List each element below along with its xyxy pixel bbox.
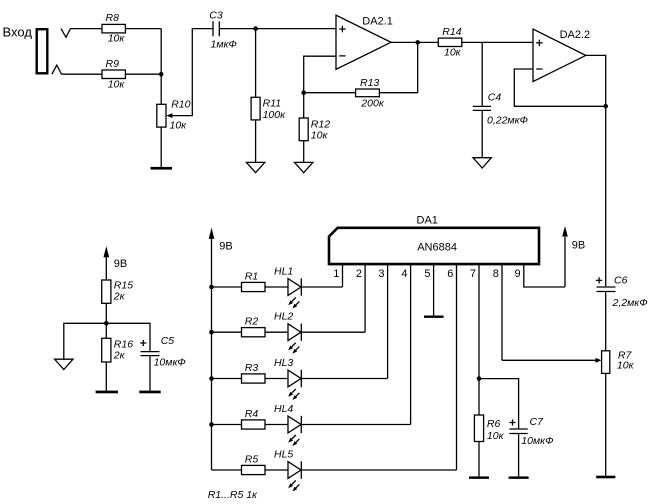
svg-text:9В: 9В (219, 241, 232, 253)
svg-text:3: 3 (378, 268, 384, 280)
svg-text:10мкФ: 10мкФ (521, 435, 553, 447)
svg-text:C4: C4 (488, 92, 502, 104)
svg-text:2к: 2к (113, 291, 126, 303)
svg-text:10к: 10к (108, 79, 126, 91)
svg-text:R9: R9 (106, 58, 120, 70)
svg-text:R11: R11 (263, 98, 281, 110)
svg-text:R15: R15 (114, 279, 133, 291)
svg-text:R14: R14 (442, 26, 461, 38)
svg-text:R1: R1 (245, 271, 258, 283)
svg-text:R13: R13 (360, 77, 379, 89)
svg-text:2,2мкФ: 2,2мкФ (612, 297, 648, 309)
svg-text:C7: C7 (530, 416, 545, 428)
svg-text:HL2: HL2 (274, 311, 293, 323)
svg-text:DA2.2: DA2.2 (560, 29, 591, 41)
svg-text:DA1: DA1 (417, 215, 438, 227)
svg-text:6: 6 (447, 268, 453, 280)
svg-text:100к: 100к (263, 109, 287, 121)
svg-text:1мкФ: 1мкФ (211, 38, 237, 50)
svg-text:10к: 10к (108, 33, 126, 45)
svg-text:C3: C3 (209, 10, 223, 22)
svg-text:200к: 200к (360, 97, 385, 109)
svg-text:9В: 9В (572, 239, 585, 251)
svg-text:Вход: Вход (3, 24, 33, 39)
svg-text:HL3: HL3 (274, 357, 293, 369)
svg-text:4: 4 (401, 268, 407, 280)
svg-text:8: 8 (493, 268, 499, 280)
svg-text:R5: R5 (245, 454, 259, 466)
svg-text:DA2.1: DA2.1 (362, 15, 393, 27)
svg-text:R8: R8 (106, 12, 120, 24)
svg-text:HL1: HL1 (274, 265, 293, 277)
svg-text:R12: R12 (311, 118, 330, 130)
svg-text:1: 1 (333, 268, 339, 280)
svg-text:R2: R2 (245, 316, 259, 328)
svg-text:R10: R10 (171, 99, 190, 111)
svg-text:C5: C5 (161, 335, 175, 347)
svg-text:10к: 10к (487, 430, 505, 442)
svg-text:10к: 10к (444, 47, 462, 59)
svg-text:2к: 2к (113, 349, 126, 361)
svg-text:HL4: HL4 (274, 403, 293, 415)
svg-text:5: 5 (424, 268, 430, 280)
svg-text:R1...R5 1к: R1...R5 1к (208, 489, 258, 501)
svg-text:R4: R4 (245, 408, 259, 420)
svg-text:R3: R3 (245, 362, 259, 374)
svg-text:10к: 10к (311, 130, 329, 142)
svg-text:9В: 9В (114, 258, 127, 270)
svg-text:C6: C6 (614, 275, 628, 287)
svg-text:0,22мкФ: 0,22мкФ (487, 115, 528, 127)
svg-text:10к: 10к (617, 359, 635, 371)
svg-text:2: 2 (356, 268, 362, 280)
svg-text:10к: 10к (170, 120, 188, 132)
svg-text:AN6884: AN6884 (417, 242, 457, 254)
svg-text:10мкФ: 10мкФ (154, 356, 186, 368)
svg-text:R6: R6 (487, 418, 501, 430)
svg-text:9: 9 (515, 268, 521, 280)
svg-text:HL5: HL5 (274, 448, 293, 460)
svg-text:7: 7 (470, 268, 476, 280)
